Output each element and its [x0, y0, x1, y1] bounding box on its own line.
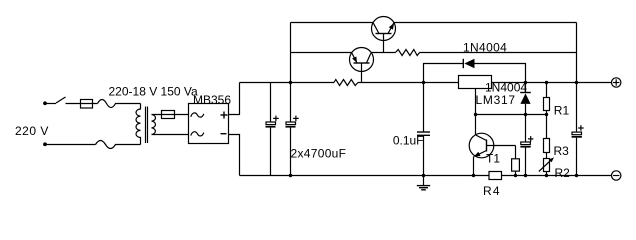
node input terminal bottom [43, 142, 47, 146]
transistor Q2 [350, 48, 374, 83]
resistor R1 [544, 83, 550, 115]
transistor T1 [469, 115, 515, 176]
resistor base T1 [512, 146, 520, 176]
wire [66, 103, 98, 105]
resistor R3 [544, 115, 550, 159]
wire trunk vertical [290, 23, 292, 83]
transistor Q1 [372, 17, 396, 53]
svg-text:1N4004: 1N4004 [463, 41, 507, 55]
svg-text:2x4700uF: 2x4700uF [291, 147, 347, 161]
wire [45, 103, 56, 105]
regulator U1 LM317 [459, 76, 492, 89]
wire mid rail [291, 52, 352, 54]
svg-text:MB356: MB356 [193, 93, 231, 107]
svg-text:1N4004: 1N4004 [485, 81, 527, 95]
svg-text:R2: R2 [555, 166, 571, 180]
capacitor 0.1uF [417, 83, 430, 176]
wire squiggle [96, 141, 141, 149]
svg-text:LM317: LM317 [476, 93, 516, 107]
transformer TR1 secondary [152, 115, 156, 135]
wire squiggle [98, 100, 141, 108]
wire ADJ line [476, 114, 547, 116]
terminal output plus [612, 78, 621, 87]
svg-text:R4: R4 [483, 184, 501, 198]
transformer TR1 primary [136, 104, 141, 145]
fuse F2 [162, 111, 175, 119]
resistor R4 [489, 172, 502, 180]
diode D2 1N4004 [520, 83, 531, 115]
svg-text:R1: R1 [554, 104, 570, 118]
potentiometer R2 [539, 157, 554, 175]
wire secondary bottom [152, 134, 189, 136]
ground [417, 176, 430, 190]
switch S1 [56, 97, 66, 103]
wire main positive rail [240, 82, 335, 84]
fuse F1 [81, 100, 93, 109]
svg-text:T1: T1 [486, 152, 500, 166]
wire ADJ pin [475, 89, 477, 115]
svg-text:0.1uF: 0.1uF [393, 134, 424, 148]
wire bridge plus output [229, 83, 240, 115]
resistor base drive zigzag [334, 80, 358, 86]
node input terminal top [43, 101, 47, 105]
wire [45, 144, 96, 146]
terminal output minus [612, 171, 621, 180]
capacitor output [572, 83, 584, 176]
bridge rectifier MB356 [189, 104, 229, 144]
diode D1 1N4004 [424, 59, 526, 83]
wire [358, 82, 459, 84]
capacitor ADJ bypass [520, 115, 533, 176]
svg-text:220 V: 220 V [15, 124, 49, 138]
wire right vertical [576, 23, 578, 83]
wire bridge minus output [229, 135, 240, 176]
wire bottom rail [240, 175, 490, 177]
wire rail after LM317 [492, 82, 612, 84]
capacitor C1 4700uF [266, 83, 279, 176]
transformer core [145, 107, 147, 144]
capacitor C2 4700uF [286, 83, 299, 176]
svg-text:220-18 V 150 Va: 220-18 V 150 Va [109, 85, 199, 99]
wire secondary top [152, 114, 189, 116]
resistor emitter zigzag [396, 50, 420, 56]
junction dots [289, 81, 578, 177]
wire top rail [291, 22, 374, 24]
svg-text:R3: R3 [554, 144, 570, 158]
